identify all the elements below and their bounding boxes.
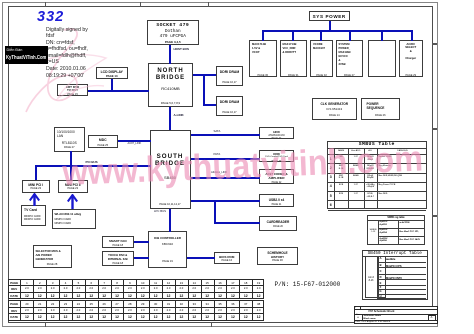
CPU socket SOCKET 479 [147,20,199,45]
MINI PCI II slot [58,180,88,194]
selector MOS power generator [33,245,72,268]
wire HOST BUS cpu to north bridge [169,45,171,64]
CRT DVI TV-OUT block [57,84,88,97]
page revision table rows 1-19 [8,279,264,299]
ODD block [259,150,294,162]
AC97 codec amplifier block [259,169,294,185]
wire LAN to PCI bus to MINI PCI II [70,151,72,180]
wire touch pad to KBC [134,257,149,259]
wire PATA to ODD [191,158,260,160]
sheet number 332 [37,9,64,25]
card reader block [259,216,297,231]
label AZALIA_LINK [211,172,227,175]
DDR DIMM 2 DDRI DRAM [216,96,243,116]
regulator system power MAX1999 [336,40,364,77]
LAN controller RTL8110S [54,127,85,152]
wire KBC to BIOS ROM [187,257,215,259]
wire power distribution bus [262,30,413,32]
SMBUS table [327,141,428,210]
TV Card module [21,205,46,226]
HDD block [259,127,294,139]
wire power bus drop 2 [292,31,294,41]
digital signature text [46,27,88,80]
label A-LINK [174,114,184,117]
south bridge U-SB SB450 [150,130,191,209]
zone tick right [432,128,437,130]
title block [354,306,438,325]
SB450 Interrupt Table [362,250,428,300]
arrow TV card to MINI PCI I [29,193,40,206]
wire power bus drop 3 [320,31,322,41]
wire power bus drop 1 [262,31,264,41]
wire SATA to HDD [191,134,260,136]
zone tick top [45,2,46,7]
BIOS ROM block [214,252,240,265]
handwritten signature squiggle [18,24,118,120]
wire A-LINK north to south bridge [169,107,171,131]
regulator MAX1714B 1.5V [249,40,277,77]
watermark black box KyThuatViTinh.Com [5,46,49,64]
wire power bus drop 4 [349,31,351,41]
regulator spare block [368,40,396,77]
AC/DC select and charger [399,40,424,77]
page revision table rows 20-38 [8,300,264,320]
wire LPC BUS south bridge to KBC [169,209,171,232]
MINI PCI I slot [22,180,51,194]
label AC97_LINK [128,143,142,146]
wire AZALIA link to AC97 codec [191,177,260,179]
wire power bus drop 5 [381,31,383,41]
wire cardreader branch horizontal [214,222,260,224]
wire memory bus to DDR1 [193,74,216,76]
zone tick right [432,43,437,45]
north bridge U-NB RC410MB [148,63,193,107]
zone tick bottom [211,322,212,327]
wire power bus drop 6 [411,31,413,41]
wire smart fan to KBC [134,241,149,243]
USB 2.0 ports block [259,194,294,207]
arrow WLAN to MINI PCI II [67,194,78,210]
power sequence block [361,98,401,120]
wire PCI BUS horizontal [35,165,151,167]
wire north bridge to display outputs [88,90,149,92]
zone tick bottom [45,322,46,327]
label SATA [214,130,221,133]
wire LCD display drop [111,79,113,91]
DDR DIMM 1 DDRI DRAM [216,66,243,86]
SYS POWER block [309,11,351,21]
wire memory bus branch vertical [203,74,205,107]
touch pad internal KB block [102,251,135,267]
label HOST BUS [174,48,190,51]
keyboard controller KBC910 [148,231,187,268]
wire PCI bus drop to MINI PCI I [35,165,37,180]
wire USB bus [191,200,260,202]
schematic history block [257,247,298,265]
zone tick top [140,2,141,7]
label PCI BUS [86,161,98,164]
label LPC BUS [154,210,166,213]
wire SYS POWER to power bus [329,21,331,31]
regulator MAX1714B VCC_DDR [280,40,308,77]
part number P/N 15-F67-012000 [275,282,341,288]
smart fan block [102,236,135,248]
zone tick right [432,215,437,217]
regulator VCORE MAX1907 [310,40,333,77]
wire AC97 link MDC to south bridge [118,140,151,142]
LCD DISPLAY block [96,67,128,80]
zone tick top [208,2,209,7]
wire memory bus to DDR2 [203,104,216,106]
label PATA [214,153,221,156]
watermark www.kythuatvitinh.com [62,141,424,191]
MDC modem daughter card [88,135,119,148]
GPIO reg table [367,215,425,246]
WLAN 802.11 module [52,209,96,230]
wire cardreader branch vertical [214,200,216,224]
clock generator ICS951413 [312,98,357,120]
